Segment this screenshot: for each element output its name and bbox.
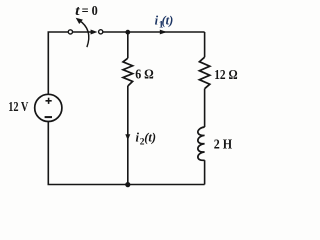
- switch motion arc: [79, 20, 89, 47]
- wire top-left segment: [48, 32, 68, 94]
- wire middle branch top: [127, 32, 129, 58]
- wire top-middle segment: [103, 31, 128, 33]
- plus terminal: [46, 100, 52, 102]
- voltage source V1: [35, 94, 62, 121]
- switch S1 (t=0): [68, 18, 102, 47]
- svg-text:12 Ω: 12 Ω: [214, 68, 237, 83]
- svg-text:12 V: 12 V: [8, 100, 28, 115]
- switch right contact circle: [99, 30, 103, 34]
- node junction dot bottom: [125, 182, 130, 187]
- resistor R1 6 ohm: [123, 58, 133, 86]
- node junction dot top: [125, 30, 130, 35]
- current arrow i2(t): [125, 134, 130, 140]
- wire bottom-right segment: [128, 184, 205, 186]
- svg-text:2 H: 2 H: [214, 137, 232, 152]
- switch blade with arrowhead: [73, 31, 91, 33]
- inductor L1 2 H: [198, 127, 205, 160]
- wire left-bottom segment: [48, 121, 128, 184]
- resistor R2 12 ohm: [199, 57, 209, 88]
- wire below L1: [204, 160, 206, 184]
- wire right branch top: [204, 32, 206, 57]
- wire top-right segment: [128, 31, 205, 33]
- current arrow i1(t): [160, 30, 167, 35]
- wire between R2 and L1: [204, 89, 206, 127]
- wire middle branch bottom: [127, 86, 129, 185]
- svg-text:= 0: = 0: [82, 4, 98, 19]
- minus terminal: [45, 116, 52, 118]
- switch left contact circle: [68, 30, 72, 34]
- svg-text:6 Ω: 6 Ω: [135, 68, 154, 83]
